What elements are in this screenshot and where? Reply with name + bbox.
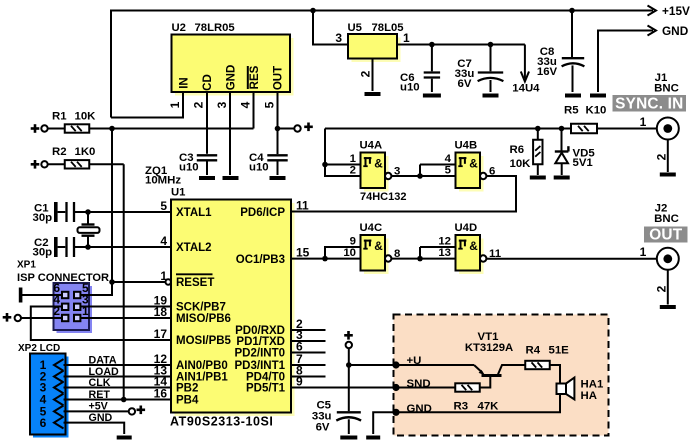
node U4D input junction: [417, 256, 423, 262]
ground (U5 pin 2): [365, 92, 381, 96]
crystal ZQ1 10MHz: [78, 165, 182, 247]
svg-text:6V: 6V: [458, 78, 472, 90]
svg-text:U4B: U4B: [455, 140, 478, 152]
svg-text:2: 2: [53, 304, 60, 318]
node +U junction: [346, 362, 352, 368]
svg-text:2: 2: [350, 165, 356, 177]
resistor R3 47K: [396, 383, 499, 412]
svg-text:R6: R6: [510, 144, 525, 156]
ground (C3): [199, 176, 215, 180]
svg-text:HA: HA: [581, 390, 597, 402]
wire U4C output to U4D inputs: [391, 247, 455, 259]
XP1 pin 4 wire to MOSI: [31, 293, 171, 342]
svg-text:RESET: RESET: [176, 277, 214, 289]
svg-text:1: 1: [640, 245, 647, 259]
svg-text:14U4: 14U4: [512, 83, 540, 95]
svg-text:1: 1: [640, 115, 647, 129]
svg-text:30p: 30p: [33, 212, 53, 224]
svg-text:BNC: BNC: [654, 213, 679, 225]
XP1 pin 6 wire to ground bar: [19, 281, 62, 303]
svg-text:AIN0/PB0: AIN0/PB0: [176, 360, 228, 372]
svg-text:XTAL1: XTAL1: [176, 207, 212, 219]
svg-text:2: 2: [655, 153, 669, 160]
ground (VD5): [554, 176, 570, 180]
svg-text:XP1: XP1: [17, 259, 36, 270]
svg-text:MOSI/PB5: MOSI/PB5: [176, 335, 232, 347]
ground (XP2 pin 6): [117, 436, 132, 440]
svg-text:GND: GND: [226, 65, 238, 91]
svg-text:U4D: U4D: [455, 222, 478, 234]
wire +U junction to VT1 box: [349, 364, 396, 366]
wire GND drop to ground: [598, 31, 653, 93]
svg-text:6: 6: [40, 416, 47, 430]
svg-text:11: 11: [296, 199, 309, 213]
ground (C5): [340, 436, 357, 440]
svg-text:IN: IN: [179, 77, 191, 89]
svg-text:R3: R3: [454, 401, 469, 413]
+5V output terminal: [278, 123, 313, 132]
svg-text:47K: 47K: [478, 401, 500, 413]
svg-text:OC1/PB3: OC1/PB3: [236, 254, 285, 266]
XP1 pin 3 wire to SCK: [81, 293, 172, 308]
svg-text:16V: 16V: [537, 66, 558, 78]
svg-text:1: 1: [160, 269, 167, 283]
svg-text:16: 16: [154, 387, 168, 401]
svg-text:R5: R5: [564, 104, 579, 116]
svg-text:PD5/T1: PD5/T1: [246, 383, 286, 395]
svg-text:U4A: U4A: [360, 140, 383, 152]
node RET/R2 junction: [121, 397, 127, 403]
U1 pin 9 wire PD5/T1 to SND: [291, 375, 396, 389]
svg-text:10: 10: [343, 247, 356, 259]
transistor VT1 KT3129A: [465, 331, 525, 388]
svg-text:R1: R1: [52, 111, 67, 123]
svg-text:9: 9: [350, 236, 356, 248]
wire R2 to RET net vertical: [123, 164, 125, 399]
XP2 pin 2 wire LOAD: [64, 364, 172, 378]
svg-text:4: 4: [160, 234, 167, 248]
svg-text:XP2 LCD: XP2 LCD: [18, 343, 60, 354]
microcontroller U1 AT90S2313-10SI: [170, 187, 295, 429]
ground (C4): [270, 176, 286, 180]
svg-text:U1: U1: [171, 187, 185, 199]
XP1 pin 5 wire to RESET: [81, 281, 113, 295]
svg-text:SYNC. IN: SYNC. IN: [615, 96, 683, 113]
ground (GND arrow): [590, 94, 606, 98]
node U4C input junction: [322, 256, 328, 262]
wire RESET net vertical: [111, 129, 113, 283]
svg-text:1: 1: [403, 31, 410, 45]
svg-text:PD3/INT1: PD3/INT1: [235, 360, 286, 372]
svg-text:CD: CD: [202, 74, 214, 91]
XP1 pin 2 input terminal: [3, 304, 62, 322]
XP2 pin 1 wire DATA: [64, 352, 172, 366]
svg-text:HA1: HA1: [581, 379, 604, 391]
node XTAL1 junction: [85, 209, 91, 215]
capacitor C7 33u 6V: [455, 42, 504, 92]
svg-text:+5V: +5V: [89, 401, 109, 413]
wire +U feed vertical: [348, 348, 350, 411]
node U4A input junction: [322, 162, 328, 168]
svg-text:78L05: 78L05: [372, 22, 404, 34]
svg-text:K10: K10: [586, 104, 607, 116]
svg-text:3: 3: [215, 101, 229, 108]
svg-text:OUT: OUT: [649, 227, 682, 244]
svg-text:MISO/PB6: MISO/PB6: [176, 313, 231, 325]
svg-text:+15V: +15V: [662, 4, 690, 18]
svg-text:5: 5: [263, 101, 277, 108]
U1 pin 8 stub PD4/T0: [291, 364, 326, 378]
J2 pin 2 wire to ground: [655, 270, 669, 305]
svg-text:78LR05: 78LR05: [195, 22, 235, 34]
J1 pin 2 wire to ground: [655, 140, 669, 173]
svg-text:10MHz: 10MHz: [145, 175, 181, 187]
zener diode VD5 5V1: [555, 126, 596, 175]
wire SYNC rail: [325, 128, 571, 130]
node U5 feed junction: [310, 8, 316, 14]
U1 pin 4 number: [160, 234, 167, 248]
svg-text:6V: 6V: [316, 422, 330, 434]
svg-text:XTAL2: XTAL2: [176, 242, 212, 254]
U1 pin 5 number: [160, 199, 167, 213]
nand gate U4C 74HC132: [343, 222, 400, 274]
regulator U5 78L05: [348, 22, 404, 62]
svg-text:RET: RET: [89, 389, 111, 401]
svg-text:R4: R4: [526, 345, 541, 357]
VT1 terminal SND: [392, 378, 430, 391]
svg-text:1K0: 1K0: [75, 146, 96, 158]
svg-text:5V1: 5V1: [573, 157, 594, 169]
capacitor C4 u10: [249, 129, 288, 176]
regulator U2 78LR05: [172, 22, 294, 96]
capacitor C6 u10: [400, 42, 440, 94]
VT1 terminal +U: [392, 355, 474, 369]
svg-text:4: 4: [239, 101, 253, 108]
ground (C8): [565, 94, 581, 98]
U1 pin 3 stub PD1/TXD: [291, 328, 326, 342]
ground (VT1 GND): [366, 436, 380, 440]
VT1 terminal GND: [392, 403, 431, 416]
svg-text:DATA: DATA: [89, 354, 117, 366]
ground (J2): [660, 305, 676, 309]
wire +15V rail: [111, 11, 653, 118]
svg-text:&: &: [374, 157, 383, 171]
svg-text:5: 5: [445, 165, 452, 177]
svg-text:AT90S2313-10SI: AT90S2313-10SI: [170, 415, 273, 429]
svg-text:u10: u10: [249, 162, 269, 174]
nand gate U4A 74HC132: [350, 140, 401, 192]
U2 pin 2 wire (CD) to C3: [192, 92, 207, 154]
wire OC1/PB3 to U4C inputs: [325, 247, 361, 259]
svg-text:RES: RES: [249, 65, 261, 89]
ground (U2 pin 3): [223, 176, 239, 180]
U2 pin 1 wire (IN) from +15V rail: [111, 92, 183, 118]
U1 pin 1 RESET input circle: [112, 269, 171, 285]
label 74HC132: [360, 191, 406, 203]
wire GND to ground near C5: [373, 412, 396, 434]
U2 pin 3 wire (GND) to ground: [215, 92, 230, 175]
ground (C7): [483, 94, 499, 98]
nand gate U4B 74HC132: [445, 140, 496, 192]
svg-text:GND: GND: [89, 412, 113, 424]
svg-text:18: 18: [154, 305, 168, 319]
node RESET junction: [109, 279, 115, 285]
svg-text:12: 12: [438, 236, 451, 248]
svg-text:&: &: [469, 157, 478, 171]
wire speaker to GND row: [399, 394, 560, 412]
U2 pin 5 wire (OUT): [263, 92, 278, 129]
svg-text:13: 13: [438, 247, 451, 259]
XP2 pin arrows: [54, 359, 64, 428]
svg-text:6: 6: [489, 166, 495, 178]
svg-text:1: 1: [350, 153, 357, 165]
svg-text:CLK: CLK: [89, 377, 111, 389]
U5 pin 1 wire +5V rail: [397, 31, 525, 45]
resistor R6 10K: [510, 126, 543, 175]
U1 pin 11 wire PD6/ICP from U4B output: [291, 176, 516, 213]
svg-text:u10: u10: [179, 162, 199, 174]
resistor R1 10K: [31, 111, 254, 133]
U5 pin 2 wire to ground: [359, 59, 373, 92]
svg-text:3: 3: [335, 31, 342, 45]
resistor R4 51E: [525, 345, 569, 370]
svg-text:15: 15: [296, 246, 310, 260]
svg-text:u10: u10: [400, 82, 420, 94]
resistor R5 K10: [564, 104, 656, 133]
ground (C6): [423, 94, 441, 98]
VT1 driver dashed enclosure: [394, 315, 609, 436]
capacitor C2 30p: [33, 237, 172, 259]
XP2 pin 3 wire CLK: [64, 375, 172, 389]
U1 pin 6 stub PD2/INT0: [291, 340, 326, 354]
node U4B input junction: [417, 173, 423, 179]
wire U4A output to U4B inputs: [391, 165, 455, 177]
connector J2 BNC OUT: [640, 203, 688, 270]
capacitor C3 u10: [179, 152, 217, 175]
U1 pin 15 wire OC1/PB3 to U4C: [291, 246, 325, 260]
svg-text:30p: 30p: [33, 247, 53, 259]
ground (R6): [530, 176, 546, 180]
svg-text:BNC: BNC: [654, 83, 679, 95]
svg-text:&: &: [374, 239, 383, 253]
wire U4D output to J2: [486, 258, 656, 260]
ground (J1): [660, 173, 676, 177]
U5 pin 3 wire from +15V: [313, 11, 348, 46]
svg-text:PD6/ICP: PD6/ICP: [240, 207, 285, 219]
svg-text:10K: 10K: [510, 158, 532, 170]
+15V arrow terminal: [648, 4, 691, 18]
svg-text:17: 17: [154, 327, 168, 341]
wire R4 to speaker: [550, 365, 560, 384]
svg-text:U2: U2: [172, 22, 186, 34]
svg-text:PD2/INT0: PD2/INT0: [235, 348, 286, 360]
svg-text:&: &: [469, 239, 478, 253]
XP2 pin 4 wire RET: [64, 387, 172, 401]
svg-text:U4C: U4C: [360, 222, 383, 234]
svg-text:PD1/TXD: PD1/TXD: [236, 336, 285, 348]
svg-text:1: 1: [168, 101, 182, 108]
resistor R2 1K0: [31, 146, 124, 169]
svg-text:51E: 51E: [549, 345, 570, 357]
U1 pin 7 stub PD3/INT1: [291, 352, 326, 366]
svg-text:5: 5: [160, 199, 167, 213]
svg-text:10K: 10K: [75, 111, 97, 123]
capacitor C5 33u 6V: [312, 400, 361, 435]
wire SYNC rail to U4A inputs: [325, 129, 361, 177]
XP2 pin 6 wire GND: [64, 412, 125, 434]
node C4/OUT junction: [275, 126, 281, 132]
svg-text:2: 2: [655, 285, 669, 292]
GND arrow terminal: [648, 24, 689, 38]
U1 pin 2 stub PD0/RXD: [291, 317, 326, 331]
svg-text:4: 4: [445, 153, 452, 165]
capacitor C8 33u 16V: [537, 8, 585, 92]
XP1 header contact squares: [62, 292, 80, 321]
node R1/RESET junction: [109, 126, 115, 132]
svg-text:PB2: PB2: [176, 383, 198, 395]
svg-text:U5: U5: [348, 22, 362, 34]
nand gate U4D 74HC132: [438, 222, 501, 274]
XP1 pin 1 wire to MISO: [81, 304, 172, 319]
connector XP1 ISP: [17, 259, 109, 333]
speaker HA1 HA: [557, 378, 604, 402]
svg-text:GND: GND: [662, 24, 689, 38]
+5V terminal near C5: [344, 331, 353, 348]
svg-text:KT3129A: KT3129A: [465, 342, 513, 354]
node XTAL2 junction: [85, 244, 91, 250]
svg-text:R2: R2: [52, 146, 67, 158]
U2 pin 4 wire (RES): [239, 92, 254, 129]
svg-text:2: 2: [192, 101, 206, 108]
svg-text:9: 9: [296, 375, 303, 389]
svg-text:1: 1: [82, 304, 89, 318]
svg-text:SCK/PB7: SCK/PB7: [176, 302, 226, 314]
svg-text:2: 2: [359, 70, 373, 77]
connector XP2 LCD: [18, 343, 69, 438]
connector J1 BNC SYNC IN: [613, 72, 687, 140]
svg-text:74HC132: 74HC132: [360, 191, 406, 203]
svg-text:PB4: PB4: [176, 395, 199, 407]
wire 14U4 supply arrow: [512, 45, 540, 95]
capacitor C1 30p: [33, 202, 172, 224]
XP2 pin 5 wire +5V terminal: [64, 401, 146, 415]
svg-text:OUT: OUT: [273, 66, 285, 90]
